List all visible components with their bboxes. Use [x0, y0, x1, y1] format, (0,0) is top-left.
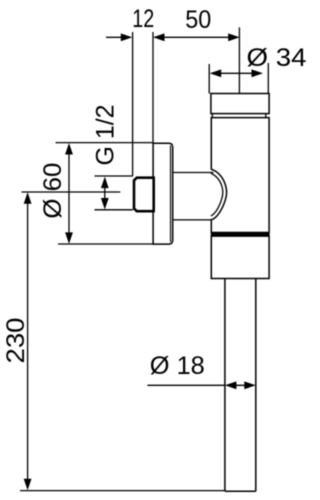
inlet nipple G 1/2 [134, 178, 154, 212]
wall flange [153, 143, 173, 244]
outlet cone inner curve [211, 173, 223, 216]
centerline pipe axis [238, 27, 240, 93]
body joint thick line [211, 233, 270, 236]
extension line cap left [208, 64, 210, 94]
dimension line diameter 60 with arrows [65, 143, 73, 244]
dimension line 12 left tail with arrow [106, 33, 132, 41]
leader line diameter 18 [147, 384, 225, 386]
dimension line 230 with arrows [24, 192, 32, 490]
extension line inlet axis [22, 191, 121, 193]
valve top cap [211, 94, 269, 114]
extension line flange top [56, 142, 154, 144]
extension line flange bottom [58, 243, 154, 245]
svg-text:Ø 18: Ø 18 [150, 352, 205, 380]
extension line pipe bottom [20, 490, 225, 492]
outlet tail pipe [225, 279, 256, 492]
extension line wall face [152, 32, 154, 143]
connection arm bottom edge [173, 219, 213, 221]
svg-text:12: 12 [132, 5, 154, 33]
dimension line 50 with arrows [153, 33, 240, 41]
valve main body with outlet cone [211, 118, 269, 233]
small dimension nipple with arrows [95, 176, 133, 210]
svg-text:Ø 34: Ø 34 [247, 44, 307, 72]
svg-text:G 1/2: G 1/2 [92, 105, 120, 166]
svg-text:230: 230 [2, 318, 30, 364]
extension line nipple face [132, 32, 134, 176]
svg-text:Ø 60: Ø 60 [39, 163, 67, 219]
valve lower cap [211, 236, 269, 278]
extension line cap right [267, 63, 269, 94]
svg-text:50: 50 [185, 6, 211, 34]
dimension arrows diameter 18 [225, 381, 256, 389]
dimension line diameter 34 with arrows [210, 69, 263, 77]
valve groove band [212, 114, 265, 118]
connection arm top edge [173, 172, 214, 174]
